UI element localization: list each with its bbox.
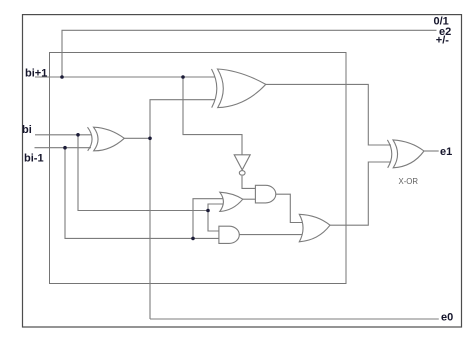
node junction bi+1/e2 [60, 75, 64, 79]
wire net bi-1 [35, 147, 92, 149]
wire NOT1 output to AND1 input A [242, 176, 255, 189]
wire bi to AND2 input A [208, 211, 219, 232]
wire node W vertical (XOR1 out to XOR2 input B) [150, 100, 215, 319]
node junction bi lower [206, 209, 210, 213]
xor-gate XOR3 (X-OR, drives e1) [387, 140, 391, 168]
wire OR2 output to XOR3 input B [330, 162, 391, 225]
xor-gate XOR2 (bi+1, node W) [212, 69, 217, 108]
wire net bi+1 [35, 76, 215, 78]
wire OR1 output to AND1 input B [243, 198, 256, 200]
node junction bi-1 [63, 146, 67, 150]
or-gate OR1 [220, 192, 243, 211]
wire XOR3 output to e1 pin [424, 150, 439, 152]
svg-text:bi-1: bi-1 [24, 153, 44, 165]
wire bi to OR1 input B [208, 204, 224, 211]
svg-text:bi+1: bi+1 [25, 68, 47, 80]
node junction bi [76, 133, 80, 137]
and-gate AND1 [255, 185, 275, 203]
xor-gate XOR1 (bi, bi-1) [88, 127, 93, 151]
wire bi-1 to OR1 input A [193, 199, 224, 239]
wire net e0 [150, 318, 439, 320]
node junction bi+1/NOT1 [181, 75, 185, 79]
or-gate OR2 [299, 214, 330, 242]
and-gate AND2 [219, 226, 239, 243]
svg-text:e1: e1 [440, 146, 452, 158]
wire net e2 (from bi+1 junction to e2 pin) [62, 30, 437, 77]
wire XOR2 output to XOR3 input A [266, 84, 391, 145]
junction dots [60, 75, 210, 240]
svg-text:bi: bi [22, 124, 32, 136]
inverter NOT1 [234, 155, 250, 170]
svg-text:+/-: +/- [436, 35, 449, 47]
svg-text:e0: e0 [441, 312, 453, 324]
node junction W (XOR1 out) [148, 137, 152, 141]
wire net bi [35, 134, 92, 136]
svg-text:X-OR: X-OR [399, 177, 419, 186]
encoder block box [50, 53, 347, 284]
wire AND2 output to OR2 input B [239, 234, 302, 236]
wire AND1 output to OR2 input A [276, 194, 302, 222]
node junction bi-1 lower [191, 237, 195, 241]
wire bi branch down [78, 135, 208, 211]
wire XOR1 output [124, 137, 150, 139]
wire bi-1 branch to AND2 input B [65, 148, 219, 239]
wire bi+1 to inverter NOT1 input [183, 77, 242, 155]
